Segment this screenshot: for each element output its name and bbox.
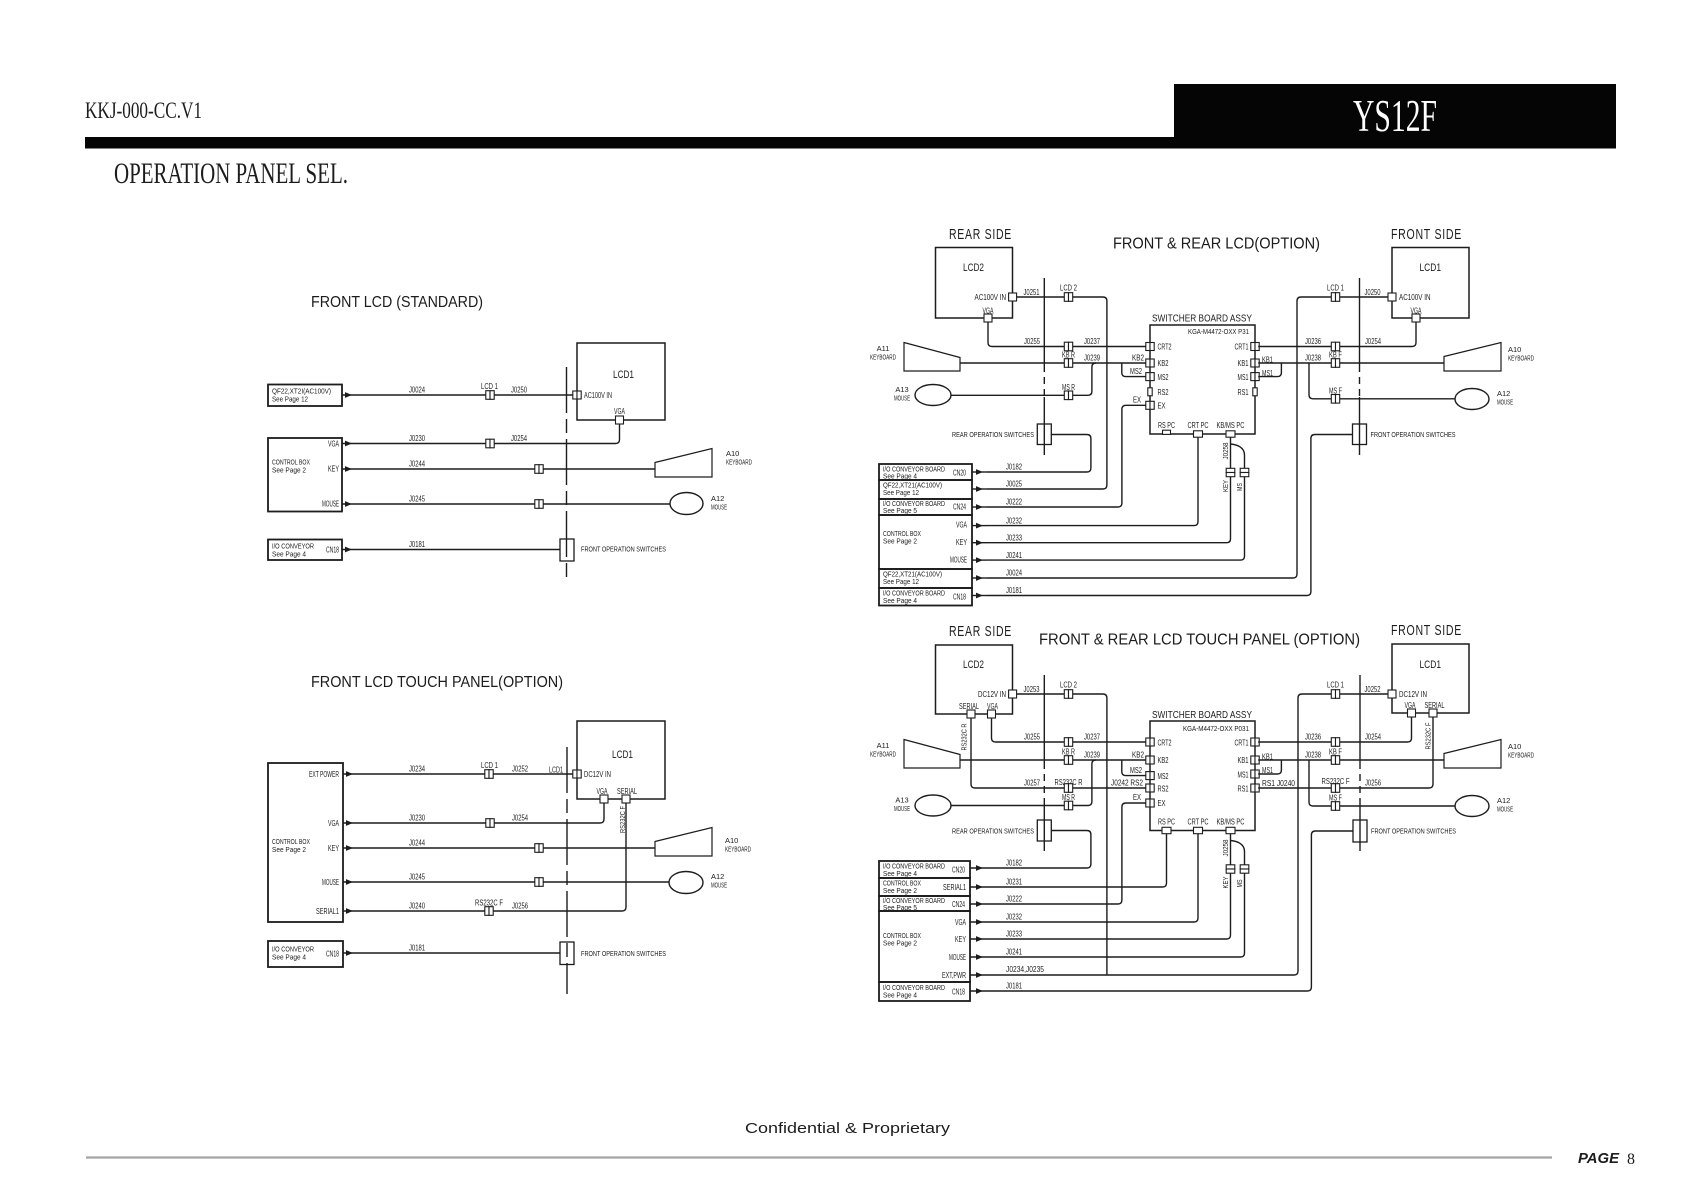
wire KB R J0239 to KB2 (section 2)	[960, 362, 1146, 364]
mouse A12 symbol (section 3)	[669, 872, 703, 894]
front panel boundary lower segment (section 2)	[1359, 397, 1361, 455]
svg-text:KGA-M4472-OXX P31: KGA-M4472-OXX P31	[1188, 327, 1249, 336]
wire serial J0257/J0242 to RS2 (section 4)	[971, 719, 1146, 789]
wire VGA J0255/J0237 to CRT2 (section 4)	[992, 719, 1146, 743]
connector VGA under LCD1 (section 2)	[1412, 314, 1420, 322]
svg-text:CRT PC: CRT PC	[1188, 818, 1209, 827]
connector on KEY wire (section 1)	[535, 465, 543, 474]
arrowhead on wire J0231 (section 4)	[976, 884, 983, 890]
wire front switches to J0181 (section 2)	[987, 435, 1353, 596]
wire stub J0233 (section 2)	[972, 542, 987, 544]
arrowhead on wire J0182 (section 4)	[976, 865, 983, 871]
box FRONT OPERATION SWITCHES (section 4)	[1353, 820, 1367, 842]
connector EX (section 2)	[1146, 401, 1154, 409]
svg-text:FRONT & REAR LCD TOUCH PANEL (: FRONT & REAR LCD TOUCH PANEL (OPTION)	[1039, 632, 1360, 649]
svg-text:See Page 2: See Page 2	[883, 886, 917, 895]
svg-text:VGA: VGA	[328, 440, 339, 449]
wire J0245 MOUSE (section 1)	[342, 503, 670, 505]
svg-text:MS1: MS1	[1238, 373, 1249, 382]
svg-text:MOUSE: MOUSE	[894, 394, 910, 403]
svg-text:J0254: J0254	[512, 814, 528, 823]
svg-text:CN18: CN18	[953, 593, 966, 602]
svg-text:FRONT OPERATION SWITCHES: FRONT OPERATION SWITCHES	[1371, 827, 1456, 836]
connector CRT PC (section 4)	[1194, 827, 1203, 833]
svg-text:LCD 2: LCD 2	[1060, 681, 1077, 690]
connector MS2 (section 2)	[1146, 373, 1154, 381]
svg-text:J0244: J0244	[409, 839, 425, 848]
svg-text:See Page 2: See Page 2	[272, 845, 306, 854]
svg-text:See Page 12: See Page 12	[272, 395, 308, 404]
arrowhead on wire J0245 section 3	[346, 879, 353, 885]
connector AC100V IN at LCD1 edge (section 2)	[1388, 293, 1396, 301]
wire stub J0024 (section 2)	[972, 577, 987, 579]
svg-text:MOUSE: MOUSE	[711, 503, 727, 512]
box I/O CONVEYOR BOARD CN20 (section 4)	[879, 861, 970, 878]
wire EX to J0222 (section 2)	[987, 405, 1146, 507]
keyboard A10 symbol (section 4)	[1444, 740, 1501, 769]
svg-text:KEY: KEY	[1221, 480, 1230, 492]
svg-text:VGA: VGA	[1405, 701, 1416, 710]
keyboard A11 symbol (section 4)	[904, 740, 960, 769]
wire KB/MS PC MS branch to J0241 (section 4)	[987, 841, 1245, 958]
svg-text:CN20: CN20	[952, 866, 965, 875]
svg-text:CN20: CN20	[953, 469, 966, 478]
connector VGA under LCD1 (section 3)	[600, 795, 608, 803]
arrowhead on wire J0233 (section 4)	[976, 936, 983, 942]
svg-text:KEYBOARD: KEYBOARD	[870, 353, 896, 362]
svg-text:PAGE: PAGE	[1578, 1150, 1620, 1167]
connector KB R inline (section 2)	[1064, 359, 1072, 368]
box I/O CONVEYOR (section 1)	[268, 540, 342, 561]
svg-text:KEYBOARD: KEYBOARD	[1508, 751, 1534, 760]
wire front switches to J0181 (section 4)	[987, 831, 1353, 991]
svg-text:AC100V IN: AC100V IN	[975, 293, 1007, 302]
svg-text:RS1: RS1	[1238, 785, 1249, 794]
box LCD2 (section 2)	[936, 248, 1013, 319]
box QF22,XT21 upper (section 2)	[879, 480, 972, 499]
connector SERIAL under LCD2 (section 4)	[967, 710, 975, 718]
arrowhead on wire J0241 (section 4)	[976, 954, 983, 960]
wire J0181 (section 1)	[342, 549, 560, 551]
svg-text:MS2: MS2	[1130, 367, 1142, 376]
svg-text:J0256: J0256	[1365, 779, 1381, 788]
mouse A12 symbol (section 2)	[1455, 389, 1489, 410]
wire EX to J0222 (section 4)	[987, 803, 1146, 904]
svg-text:CRT2: CRT2	[1158, 739, 1172, 748]
wire stub J0232 (section 2)	[972, 525, 987, 527]
arrowhead on wire J0232 (section 4)	[976, 919, 983, 925]
svg-text:Confidential & Proprietary: Confidential & Proprietary	[745, 1121, 951, 1137]
wire stub J0222 (section 4)	[970, 903, 987, 905]
box REAR OPERATION SWITCHES (section 4)	[1037, 820, 1051, 841]
wire J0245 MOUSE (section 3)	[343, 881, 669, 883]
svg-text:J0252: J0252	[1365, 685, 1381, 694]
arrowhead on wire J0025 (section 2)	[976, 486, 983, 492]
svg-text:DC12V IN: DC12V IN	[978, 690, 1006, 699]
svg-text:CN24: CN24	[953, 503, 966, 512]
svg-text:J0181: J0181	[1006, 982, 1022, 991]
svg-text:CRT1: CRT1	[1235, 739, 1249, 748]
wire J0230 VGA (section 3)	[343, 803, 604, 823]
front panel boundary lower segment (section 4)	[1359, 802, 1361, 852]
connector MS R inline (section 2)	[1064, 391, 1072, 400]
svg-text:EXT POWER: EXT POWER	[309, 770, 339, 779]
box CONTROL BOX (section 1)	[268, 438, 342, 512]
connector KB2 (section 2)	[1146, 359, 1154, 367]
svg-text:DC12V IN: DC12V IN	[584, 770, 611, 779]
connector DC12V IN at LCD2 edge (section 4)	[1009, 690, 1017, 698]
connector KB F inline (section 4)	[1331, 756, 1339, 765]
svg-text:SERIAL: SERIAL	[617, 787, 637, 796]
connector CRT2 (section 4)	[1146, 738, 1154, 746]
svg-text:J0239: J0239	[1084, 751, 1100, 760]
svg-text:MS: MS	[1235, 880, 1244, 888]
wire J0182 from CN20 (section 2)	[972, 471, 987, 473]
svg-text:KB1: KB1	[1238, 756, 1249, 765]
connector RS PC (section 4)	[1162, 827, 1171, 833]
svg-text:KEY: KEY	[328, 844, 339, 853]
svg-text:CN18: CN18	[952, 988, 965, 997]
connector CRT2 (section 2)	[1146, 343, 1154, 351]
svg-text:KEYBOARD: KEYBOARD	[1508, 354, 1534, 363]
connector on KEY wire (section 3)	[535, 844, 543, 853]
svg-text:MOUSE: MOUSE	[1497, 398, 1513, 407]
wire CRT PC to J0232 (section 2)	[987, 437, 1198, 525]
connector KEY inline vertical (section 4)	[1226, 865, 1235, 873]
connector KB R inline (section 4)	[1064, 756, 1072, 765]
wire J0244 KEY (section 3)	[343, 847, 655, 849]
wire MS2 stub from keyboard line (section 4)	[1122, 760, 1146, 776]
svg-text:KB1: KB1	[1262, 753, 1273, 762]
svg-text:MS2: MS2	[1158, 772, 1169, 781]
box I/O CONVEYOR BOARD CN20 (section 2)	[879, 464, 972, 480]
svg-text:LCD1: LCD1	[549, 766, 563, 775]
svg-text:J0182: J0182	[1006, 859, 1022, 868]
arrowhead on wire J0222 (section 2)	[976, 504, 983, 510]
wire stub J0222 (section 2)	[972, 506, 987, 508]
front panel boundary upper segment (section 4)	[1359, 675, 1361, 762]
connector MS inline vertical (section 2)	[1240, 468, 1249, 476]
arrowhead on wire J0233 (section 2)	[976, 540, 983, 546]
connector LCD 2 inline (section 4)	[1064, 690, 1072, 699]
svg-text:J0237: J0237	[1084, 733, 1100, 742]
front panel boundary dashed segment (section 2)	[1359, 365, 1361, 397]
svg-text:YS12F: YS12F	[1353, 91, 1437, 141]
svg-text:See Page 4: See Page 4	[883, 991, 917, 1000]
panel boundary dash line (section 3)	[566, 747, 568, 994]
wire MS1 stub joining KB1 line (section 2)	[1258, 363, 1281, 377]
svg-text:KEY: KEY	[956, 538, 967, 547]
connector KB2 (section 4)	[1146, 756, 1154, 764]
arrowhead on wire J0240	[346, 908, 353, 914]
wire MS R joining KB line (section 4)	[951, 760, 1096, 806]
svg-text:SERIAL1: SERIAL1	[316, 907, 339, 916]
box I/O CONVEYOR BOARD CN24 (section 2)	[879, 499, 972, 515]
svg-text:FRONT & REAR LCD(OPTION): FRONT & REAR LCD(OPTION)	[1113, 236, 1320, 253]
svg-text:KB1: KB1	[1238, 359, 1249, 368]
svg-text:J0181: J0181	[1006, 586, 1022, 595]
wire KB/MS PC KEY to J0233 (section 2)	[987, 437, 1231, 543]
svg-text:See Page 5: See Page 5	[883, 506, 917, 515]
svg-text:J0182: J0182	[1006, 463, 1022, 472]
connector LCD 1 inline (section 3)	[485, 770, 493, 779]
svg-text:CN24: CN24	[952, 900, 965, 909]
svg-text:J0238: J0238	[1305, 354, 1321, 363]
wire J0234 EXT POWER (section 3)	[343, 773, 573, 775]
wire stub J0231 (section 4)	[970, 886, 987, 888]
connector RS PC (section 2)	[1163, 430, 1171, 434]
connector DC12V IN at LCD1 edge (section 3)	[573, 770, 581, 778]
front panel boundary upper segment (section 2)	[1359, 278, 1361, 365]
box SWITCHER BOARD ASSY (section 2)	[1150, 325, 1255, 434]
svg-text:J0245: J0245	[409, 495, 425, 504]
svg-text:KEY: KEY	[955, 935, 966, 944]
svg-text:FRONT SIDE: FRONT SIDE	[1391, 623, 1462, 639]
svg-text:CRT1: CRT1	[1235, 343, 1249, 352]
svg-text:See Page 2: See Page 2	[883, 939, 917, 948]
svg-text:J0236: J0236	[1305, 733, 1321, 742]
connector on MOUSE wire (section 1)	[535, 500, 543, 509]
svg-text:J0025: J0025	[1006, 480, 1022, 489]
svg-text:FRONT OPERATION SWITCHES: FRONT OPERATION SWITCHES	[1371, 430, 1456, 439]
box FRONT OPERATION SWITCHES (section 1)	[560, 539, 574, 561]
svg-text:J0239: J0239	[1084, 354, 1100, 363]
wire VGA J0255/J0237 to CRT2 (section 2)	[988, 323, 1146, 347]
svg-text:J0256: J0256	[512, 902, 528, 911]
wire MS1 stub joining KB1 line (section 4)	[1258, 760, 1281, 774]
svg-text:VGA: VGA	[328, 819, 339, 828]
wire KB/MS PC KEY to J0233 (section 4)	[987, 834, 1231, 939]
connector KB/MS PC (section 2)	[1226, 431, 1235, 437]
svg-text:J0240: J0240	[409, 902, 425, 911]
wire MS2 stub from keyboard line (section 2)	[1122, 363, 1146, 377]
svg-text:J0181: J0181	[409, 540, 425, 549]
svg-text:SERIAL1: SERIAL1	[943, 883, 966, 892]
wire J0181 (section 3)	[343, 952, 560, 954]
box REAR OPERATION SWITCHES (section 2)	[1037, 424, 1051, 445]
svg-text:KB F: KB F	[1329, 351, 1342, 360]
svg-text:KEYBOARD: KEYBOARD	[870, 750, 896, 759]
connector on J0236 wire (section 2)	[1331, 342, 1339, 351]
svg-text:LCD2: LCD2	[963, 659, 984, 671]
connector RS1 (section 2)	[1253, 388, 1257, 396]
connector KEY inline vertical (section 2)	[1226, 468, 1235, 476]
svg-text:J0236: J0236	[1305, 337, 1321, 346]
wire stub J0234 J0235 (section 4)	[970, 974, 987, 976]
svg-text:MOUSE: MOUSE	[711, 881, 727, 890]
connector AC100V IN at LCD2 edge	[1009, 293, 1017, 301]
svg-text:J0250: J0250	[1365, 288, 1381, 297]
connector CRT PC (section 2)	[1194, 431, 1203, 437]
wire J0024 AC100V (section 1)	[342, 394, 573, 396]
connector MS R inline (section 4)	[1064, 801, 1072, 810]
svg-text:KGA-M4472-OXX P031: KGA-M4472-OXX P031	[1183, 724, 1249, 733]
wire CRT1 J0236/J0254 to VGA (section 4)	[1258, 718, 1411, 743]
svg-text:LCD1: LCD1	[1420, 659, 1442, 671]
svg-text:REAR SIDE: REAR SIDE	[949, 227, 1012, 243]
svg-text:EX: EX	[1133, 793, 1141, 802]
arrowhead on wire J0244	[345, 466, 352, 472]
wire stub J0233 (section 4)	[970, 938, 987, 940]
connector on VGA wire (section 3)	[486, 819, 494, 828]
svg-text:J0222: J0222	[1006, 498, 1022, 507]
arrowhead on wire J0230	[345, 441, 352, 447]
svg-text:KEY: KEY	[1221, 877, 1230, 889]
connector LCD 1 inline (section 2)	[1331, 293, 1339, 302]
header rule bar	[85, 137, 1174, 149]
svg-text:AC100V IN: AC100V IN	[584, 391, 612, 400]
svg-text:See Page 4: See Page 4	[883, 869, 917, 878]
svg-text:See Page 4: See Page 4	[272, 550, 306, 559]
connector KB F inline (section 2)	[1331, 359, 1339, 368]
svg-text:LCD 1: LCD 1	[481, 382, 498, 391]
svg-text:KEYBOARD: KEYBOARD	[725, 845, 751, 854]
connector VGA under LCD2 (section 4)	[988, 710, 996, 718]
arrowhead on wire J0222 (section 4)	[976, 901, 983, 907]
connector on MOUSE wire (section 3)	[535, 878, 543, 887]
connector CRT1 (section 2)	[1251, 343, 1259, 351]
connector on J0255 wire (section 4)	[1064, 738, 1072, 747]
connector RS232C F inline (section 3)	[485, 907, 493, 916]
svg-text:KB1: KB1	[1262, 356, 1273, 365]
svg-text:LCD 1: LCD 1	[481, 761, 498, 770]
svg-text:MS F: MS F	[1329, 386, 1342, 395]
svg-text:J0255: J0255	[1024, 733, 1040, 742]
wire RS PC to J0231 (section 4)	[987, 834, 1167, 887]
svg-text:VGA: VGA	[1411, 307, 1422, 316]
svg-text:SWITCHER BOARD ASSY: SWITCHER BOARD ASSY	[1152, 314, 1252, 325]
connector RS2 (section 4)	[1146, 784, 1154, 792]
svg-text:SERIAL: SERIAL	[959, 702, 979, 711]
wire stub J0182 (section 4)	[970, 867, 987, 869]
connector AC100V IN at LCD1 edge (section 1)	[573, 391, 581, 399]
svg-text:J0234: J0234	[409, 765, 425, 774]
svg-text:See Page 12: See Page 12	[883, 577, 919, 586]
svg-text:KB2: KB2	[1132, 751, 1144, 760]
connector LCD 1 inline (section 4)	[1331, 690, 1339, 699]
svg-text:See Page 2: See Page 2	[883, 537, 917, 546]
svg-text:KKJ-000-CC.V1: KKJ-000-CC.V1	[85, 98, 202, 123]
svg-text:J0181: J0181	[409, 944, 425, 953]
svg-text:J0238: J0238	[1305, 751, 1321, 760]
wire J0244 KEY (section 1)	[342, 468, 655, 470]
box CONTROL BOX SERIAL1 (section 4)	[879, 878, 970, 896]
svg-text:AC100V IN: AC100V IN	[1399, 293, 1431, 302]
svg-text:J0241: J0241	[1006, 948, 1022, 957]
rear panel boundary dashed segment (section 4)	[1043, 762, 1045, 803]
svg-text:FRONT OPERATION SWITCHES: FRONT OPERATION SWITCHES	[581, 949, 666, 958]
svg-text:J0251: J0251	[1024, 288, 1040, 297]
svg-text:RS232C F: RS232C F	[1424, 722, 1433, 749]
svg-text:CN18: CN18	[326, 546, 339, 555]
box CONTROL BOX (section 4)	[879, 911, 970, 982]
wire stub J0181 (section 4)	[970, 990, 987, 992]
wire J0230 VGA (section 1)	[342, 424, 620, 444]
svg-text:J0253: J0253	[1024, 685, 1040, 694]
arrowhead on wire J0181 section 3	[346, 950, 353, 956]
svg-text:MOUSE: MOUSE	[894, 804, 910, 813]
wire stub J0241 (section 2)	[972, 559, 987, 561]
svg-text:MOUSE: MOUSE	[1497, 805, 1513, 814]
svg-text:See Page 4: See Page 4	[883, 596, 917, 605]
svg-text:J0230: J0230	[409, 814, 425, 823]
wire stub J0025 (section 2)	[972, 488, 987, 490]
arrowhead on wire J0245	[345, 501, 352, 507]
svg-text:J0233: J0233	[1006, 930, 1022, 939]
svg-text:RS1: RS1	[1238, 388, 1249, 397]
svg-text:EXT,PWR: EXT,PWR	[942, 971, 966, 980]
svg-text:MS1: MS1	[1262, 369, 1273, 378]
svg-text:J0232: J0232	[1006, 516, 1022, 525]
svg-text:See Page 4: See Page 4	[272, 953, 306, 962]
panel boundary dash line (section 1)	[566, 367, 568, 578]
arrowhead on wire J0181 (section 4)	[976, 988, 983, 994]
rear panel boundary dashed segment (section 2)	[1043, 365, 1045, 397]
svg-text:VGA: VGA	[955, 918, 966, 927]
wire KB1 J0238 to keyboard (section 2)	[1258, 362, 1444, 364]
box FRONT OPERATION SWITCHES (section 2)	[1353, 424, 1367, 445]
mouse A12 symbol (section 1)	[670, 493, 703, 515]
connector MS1 (section 2)	[1251, 373, 1259, 381]
wire KB/MS PC MS branch to J0241 (section 2)	[987, 444, 1245, 560]
svg-text:J0258: J0258	[1221, 840, 1230, 857]
mouse A13 symbol (section 2)	[915, 385, 951, 406]
svg-text:J0222: J0222	[1006, 895, 1022, 904]
box QF22,XT21 lower (section 2)	[879, 569, 972, 588]
svg-text:EX: EX	[1158, 401, 1166, 410]
svg-text:SERIAL: SERIAL	[1425, 701, 1445, 710]
svg-text:VGA: VGA	[983, 307, 994, 316]
wire rear switches to J0182 (section 4)	[987, 831, 1091, 869]
header title banner	[1174, 84, 1616, 149]
keyboard A10 symbol (section 1)	[655, 449, 712, 478]
rear panel boundary upper segment (section 4)	[1043, 675, 1045, 762]
svg-text:MOUSE: MOUSE	[950, 556, 967, 565]
svg-text:MOUSE: MOUSE	[322, 878, 339, 887]
connector MS inline vertical (section 4)	[1240, 865, 1249, 873]
svg-text:J0254: J0254	[511, 434, 527, 443]
wire J0240 SERIAL1 (section 3)	[343, 803, 626, 911]
connector MS2 (section 4)	[1146, 772, 1154, 780]
connector LCD 2 inline (section 2)	[1064, 293, 1072, 302]
arrowhead on wire J0244 section 3	[346, 845, 353, 851]
box CONTROL BOX (section 2)	[879, 515, 972, 569]
svg-text:EX: EX	[1158, 799, 1166, 808]
svg-text:J0024: J0024	[1006, 569, 1022, 578]
rear panel boundary lower segment (section 2)	[1043, 397, 1045, 455]
svg-text:EX: EX	[1133, 395, 1141, 404]
svg-text:LCD 1: LCD 1	[1327, 284, 1344, 293]
svg-text:J0232: J0232	[1006, 913, 1022, 922]
svg-text:VGA: VGA	[614, 407, 625, 416]
svg-text:J0250: J0250	[511, 386, 527, 395]
wire AC100V J0251 to J0025 (section 2)	[987, 297, 1107, 489]
connector VGA under LCD1 (section 1)	[616, 416, 624, 424]
box SWITCHER BOARD ASSY (section 4)	[1150, 721, 1255, 831]
svg-text:J0252: J0252	[512, 765, 528, 774]
svg-text:FRONT LCD TOUCH PANEL(OPTION): FRONT LCD TOUCH PANEL(OPTION)	[311, 674, 563, 691]
svg-text:CRT2: CRT2	[1158, 343, 1172, 352]
arrowhead on wire J0182 (section 2)	[976, 469, 983, 475]
wire AC100V J0250 to J0024 (section 2)	[987, 297, 1388, 578]
connector LCD 1 inline (section 1)	[486, 391, 494, 400]
connector RS232C R inline (section 4)	[1064, 784, 1072, 793]
svg-text:J0258: J0258	[1221, 443, 1230, 460]
connector RS2 (section 2)	[1148, 388, 1152, 396]
connector KB1 (section 2)	[1251, 359, 1259, 367]
svg-text:RS232C R: RS232C R	[960, 723, 969, 750]
svg-text:J0255: J0255	[1024, 337, 1040, 346]
